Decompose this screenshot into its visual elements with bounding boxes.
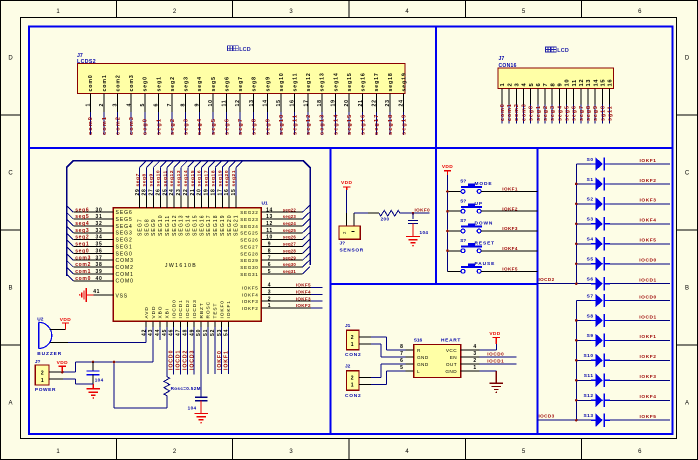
svg-text:SEG7: SEG7 [137, 218, 143, 236]
svg-text:SEG18: SEG18 [213, 214, 219, 236]
svg-text:10: 10 [565, 79, 571, 87]
svg-text:seg8: seg8 [252, 118, 258, 135]
svg-text:SEG21: SEG21 [234, 214, 240, 236]
svg-text:2: 2 [507, 83, 513, 87]
svg-text:J?: J? [35, 359, 41, 365]
svg-text:32: 32 [96, 221, 103, 227]
svg-text:SEG28: SEG28 [240, 251, 258, 256]
svg-text:IOCD0: IOCD0 [487, 352, 504, 357]
svg-text:13: 13 [266, 214, 273, 220]
svg-text:IOKF4: IOKF4 [296, 289, 311, 294]
svg-text:SEG5: SEG5 [116, 217, 133, 223]
svg-text:seg29: seg29 [283, 255, 297, 260]
svg-text:30: 30 [96, 207, 103, 213]
svg-text:IOCD0: IOCD0 [169, 350, 175, 370]
svg-text:1: 1 [351, 382, 354, 388]
svg-text:2: 2 [351, 335, 354, 341]
svg-text:seg4: seg4 [197, 76, 203, 91]
svg-text:seg16: seg16 [361, 114, 367, 135]
svg-text:SEG16: SEG16 [199, 214, 205, 236]
svg-text:sg11: sg11 [607, 105, 613, 121]
svg-text:SEG4: SEG4 [116, 224, 133, 230]
svg-text:24: 24 [399, 99, 405, 106]
svg-text:SEG1: SEG1 [116, 244, 133, 250]
svg-text:21: 21 [190, 189, 196, 196]
svg-text:C: C [685, 171, 690, 177]
svg-text:8: 8 [400, 344, 403, 350]
svg-text:IOCD0: IOCD0 [639, 258, 656, 264]
svg-text:J2: J2 [345, 364, 351, 370]
svg-text:com2: com2 [115, 116, 121, 135]
svg-text:38: 38 [96, 262, 103, 268]
svg-text:seg19: seg19 [401, 114, 407, 135]
svg-text:13: 13 [586, 79, 592, 87]
svg-text:3: 3 [113, 103, 119, 107]
svg-text:BUZZER: BUZZER [37, 351, 62, 357]
svg-text:XBO: XBO [158, 306, 164, 319]
svg-text:UP: UP [475, 201, 483, 207]
svg-text:7: 7 [543, 83, 549, 87]
svg-text:SENSOR: SENSOR [340, 248, 364, 254]
svg-text:5: 5 [400, 365, 403, 371]
svg-text:com3: com3 [129, 116, 135, 135]
svg-text:RESET: RESET [475, 241, 496, 247]
svg-text:15: 15 [600, 79, 606, 87]
svg-text:seg9: seg9 [265, 118, 271, 135]
svg-text:14: 14 [262, 99, 268, 106]
svg-text:com3: com3 [129, 74, 135, 91]
svg-text:7: 7 [268, 255, 271, 261]
svg-text:seg6: seg6 [572, 105, 578, 121]
svg-text:IOCD1: IOCD1 [487, 359, 504, 364]
svg-text:D: D [8, 56, 13, 62]
svg-text:IOCD2: IOCD2 [185, 299, 191, 318]
svg-text:VDD: VDD [489, 331, 500, 337]
svg-text:12: 12 [235, 99, 241, 106]
svg-text:seg4: seg4 [197, 118, 203, 135]
svg-text:IOKF1: IOKF1 [640, 334, 657, 340]
svg-text:J7: J7 [499, 56, 505, 62]
svg-text:SEG8: SEG8 [144, 218, 150, 236]
svg-text:3: 3 [473, 351, 476, 357]
svg-text:seg6: seg6 [224, 118, 230, 135]
svg-text:23: 23 [385, 99, 391, 106]
svg-text:37: 37 [96, 255, 103, 261]
svg-text:seg30: seg30 [283, 262, 297, 267]
svg-text:seg22: seg22 [283, 207, 297, 212]
svg-text:IOKF1: IOKF1 [224, 350, 230, 370]
svg-text:14: 14 [266, 207, 273, 213]
svg-text:16: 16 [290, 99, 296, 106]
svg-text:seg16: seg16 [361, 72, 367, 91]
svg-text:24: 24 [169, 189, 175, 196]
svg-text:8: 8 [268, 248, 271, 254]
svg-text:6: 6 [268, 262, 271, 268]
svg-text:seg7: seg7 [238, 118, 244, 135]
svg-text:35: 35 [96, 242, 103, 248]
svg-text:seg10: seg10 [155, 170, 161, 187]
svg-text:C: C [8, 171, 13, 177]
svg-text:seg2: seg2 [170, 118, 176, 135]
svg-text:seg5: seg5 [564, 105, 570, 121]
svg-text:6: 6 [536, 83, 542, 87]
svg-text:L: L [417, 369, 420, 374]
svg-text:seg2: seg2 [170, 76, 176, 91]
svg-text:seg27: seg27 [283, 242, 297, 247]
svg-text:104: 104 [420, 230, 429, 235]
svg-text:IOKF2: IOKF2 [296, 303, 311, 308]
svg-text:DOWN: DOWN [475, 221, 494, 227]
svg-text:XBI: XBI [164, 308, 170, 318]
svg-text:seg13: seg13 [320, 114, 326, 135]
svg-text:EN: EN [450, 355, 457, 360]
svg-text:9: 9 [557, 83, 563, 87]
svg-text:10: 10 [266, 235, 273, 241]
svg-text:seg23: seg23 [283, 214, 297, 219]
svg-text:15: 15 [276, 99, 282, 106]
svg-text:13: 13 [249, 99, 255, 106]
svg-text:SEG3: SEG3 [116, 231, 133, 237]
svg-text:seg17: seg17 [204, 170, 210, 187]
svg-text:4: 4 [473, 344, 476, 350]
svg-text:J?: J? [340, 240, 346, 246]
svg-text:12: 12 [266, 221, 273, 227]
svg-text:seg7: seg7 [579, 105, 585, 121]
svg-text:U1: U1 [262, 200, 268, 206]
svg-text:seg26: seg26 [283, 235, 297, 240]
svg-text:104: 104 [188, 406, 197, 411]
svg-text:S16: S16 [414, 337, 423, 343]
svg-text:23: 23 [176, 189, 182, 196]
svg-text:IOKF4: IOKF4 [502, 246, 518, 251]
svg-text:SEG13: SEG13 [179, 214, 185, 236]
svg-text:SEG10: SEG10 [158, 214, 164, 236]
svg-text:seg21: seg21 [231, 170, 237, 187]
svg-text:IOCD3: IOCD3 [189, 350, 195, 370]
svg-text:GND: GND [417, 362, 429, 367]
svg-text:S?: S? [460, 218, 466, 223]
svg-text:seg1: seg1 [536, 105, 542, 121]
svg-text:AVD: AVD [144, 306, 150, 318]
svg-text:9: 9 [268, 242, 271, 248]
svg-text:IOKF3: IOKF3 [640, 198, 657, 204]
svg-text:SEG29: SEG29 [240, 258, 258, 263]
svg-text:VCC: VCC [446, 348, 457, 353]
svg-text:com0: com0 [75, 276, 91, 282]
svg-text:R: R [417, 348, 421, 353]
svg-text:4: 4 [126, 103, 132, 107]
svg-text:IOKF1: IOKF1 [226, 300, 232, 318]
svg-text:11: 11 [222, 100, 228, 107]
svg-text:seg31: seg31 [283, 269, 297, 274]
svg-text:IOKF2: IOKF2 [502, 206, 518, 211]
svg-text:SEG15: SEG15 [192, 214, 198, 236]
svg-text:25: 25 [162, 189, 168, 196]
svg-text:com1: com1 [75, 269, 91, 275]
svg-text:seg15: seg15 [190, 170, 196, 187]
svg-text:COM0: COM0 [116, 279, 134, 285]
svg-text:31: 31 [96, 214, 103, 220]
svg-text:seg5: seg5 [211, 76, 217, 91]
svg-text:J1: J1 [345, 323, 351, 329]
svg-text:seg2: seg2 [75, 235, 89, 241]
svg-text:seg18: seg18 [388, 72, 394, 91]
svg-text:SEG11: SEG11 [165, 215, 171, 236]
svg-text:VDD: VDD [442, 164, 453, 170]
svg-text:12: 12 [579, 79, 585, 87]
svg-text:seg9: seg9 [149, 173, 155, 186]
svg-text:IOCD1: IOCD1 [176, 350, 182, 370]
svg-text:seg9: seg9 [593, 105, 599, 121]
svg-text:B: B [8, 286, 12, 292]
svg-text:S4: S4 [587, 237, 594, 243]
svg-text:S12: S12 [583, 393, 593, 399]
svg-text:GND: GND [417, 355, 429, 360]
svg-text:SEG19: SEG19 [220, 214, 226, 236]
svg-text:2: 2 [268, 296, 271, 302]
svg-text:seg3: seg3 [184, 118, 190, 135]
svg-text:seg0: seg0 [143, 118, 149, 135]
svg-text:seg12: seg12 [306, 114, 312, 135]
svg-text:4: 4 [522, 83, 528, 87]
svg-text:seg17: seg17 [374, 72, 380, 91]
svg-text:IOCD1: IOCD1 [639, 278, 656, 284]
svg-text:seg9: seg9 [265, 76, 271, 91]
svg-text:seg28: seg28 [283, 248, 297, 253]
svg-text:18: 18 [317, 99, 323, 106]
svg-text:SEG26: SEG26 [240, 238, 258, 243]
svg-text:SEG17: SEG17 [206, 214, 212, 236]
svg-text:seg25: seg25 [283, 228, 297, 233]
svg-text:VDD: VDD [57, 360, 68, 366]
svg-text:OUT: OUT [446, 362, 457, 367]
svg-text:S1: S1 [587, 177, 594, 183]
svg-text:com0: com0 [88, 116, 94, 135]
svg-text:18: 18 [210, 189, 216, 196]
svg-text:seg11: seg11 [293, 114, 299, 135]
svg-text:MODE: MODE [475, 181, 493, 187]
svg-text:com1: com1 [102, 74, 108, 91]
svg-text:4: 4 [268, 283, 271, 289]
svg-text:LCD: LCD [557, 48, 569, 54]
svg-text:IOCD1: IOCD1 [178, 299, 184, 318]
svg-text:IOKF1: IOKF1 [640, 158, 657, 164]
svg-text:seg6: seg6 [224, 76, 230, 91]
svg-text:B: B [685, 286, 689, 292]
svg-text:S3: S3 [587, 217, 594, 223]
svg-text:S8: S8 [587, 313, 594, 319]
svg-text:7: 7 [400, 351, 403, 357]
svg-text:seg3: seg3 [184, 76, 190, 91]
svg-text:IOKF3: IOKF3 [640, 374, 657, 380]
svg-text:seg10: seg10 [279, 114, 285, 135]
svg-text:COM3: COM3 [116, 258, 134, 264]
svg-text:A: A [685, 401, 689, 407]
svg-text:SEG27: SEG27 [240, 244, 258, 249]
svg-text:seg10: seg10 [279, 72, 285, 91]
svg-text:seg18: seg18 [210, 170, 216, 187]
svg-text:IOKF3: IOKF3 [296, 296, 311, 301]
svg-text:5: 5 [140, 103, 146, 107]
svg-text:CON2: CON2 [345, 393, 362, 399]
svg-text:19: 19 [331, 99, 337, 106]
svg-text:SEG31: SEG31 [240, 272, 258, 277]
svg-text:26: 26 [155, 189, 161, 196]
svg-text:Rosc=0.52M: Rosc=0.52M [171, 386, 201, 391]
svg-text:6: 6 [154, 103, 160, 107]
svg-text:SEG25: SEG25 [240, 231, 258, 236]
svg-text:1: 1 [500, 83, 506, 87]
svg-text:seg14: seg14 [183, 170, 189, 187]
svg-text:seg7: seg7 [135, 173, 141, 186]
svg-text:SEG23: SEG23 [240, 217, 258, 222]
svg-text:IOCD0: IOCD0 [171, 299, 177, 318]
svg-text:IOKF2: IOKF2 [640, 354, 657, 360]
svg-text:com2: com2 [115, 74, 121, 91]
svg-text:seg4: seg4 [557, 105, 563, 121]
svg-text:VDD: VDD [151, 306, 157, 319]
svg-text:seg0: seg0 [529, 105, 535, 121]
svg-text:1: 1 [85, 103, 91, 107]
svg-text:SEG2: SEG2 [116, 238, 133, 244]
svg-text:SEG30: SEG30 [240, 265, 258, 270]
svg-text:IOKF3: IOKF3 [502, 226, 518, 231]
svg-text:com1: com1 [102, 116, 108, 135]
svg-text:seg18: seg18 [388, 114, 394, 135]
svg-text:IOKF5: IOKF5 [296, 283, 311, 288]
svg-text:seg8: seg8 [586, 105, 592, 121]
svg-text:20: 20 [197, 189, 203, 196]
svg-text:com2: com2 [514, 103, 520, 121]
svg-text:8: 8 [181, 103, 187, 107]
svg-text:SEG9: SEG9 [151, 218, 157, 236]
svg-text:S11: S11 [584, 373, 594, 379]
svg-text:SEG12: SEG12 [172, 214, 178, 236]
svg-text:2: 2 [473, 358, 476, 364]
svg-text:com2: com2 [75, 262, 91, 268]
svg-text:16: 16 [224, 189, 230, 196]
svg-text:1: 1 [473, 365, 476, 371]
svg-text:17: 17 [303, 99, 309, 106]
svg-text:VSS: VSS [116, 294, 128, 300]
svg-text:seg19: seg19 [401, 72, 407, 91]
svg-text:CON2: CON2 [345, 352, 362, 358]
svg-text:seg5: seg5 [211, 118, 217, 135]
svg-text:2: 2 [41, 370, 44, 376]
svg-text:TEST: TEST [213, 303, 219, 319]
svg-text:S9: S9 [587, 333, 594, 339]
svg-text:S6: S6 [587, 277, 594, 283]
svg-text:COM2: COM2 [116, 265, 134, 271]
svg-text:SEG24: SEG24 [240, 224, 258, 229]
svg-text:29: 29 [135, 189, 141, 196]
svg-text:IOKF4: IOKF4 [640, 218, 657, 224]
svg-text:seg1: seg1 [156, 76, 162, 91]
svg-text:6: 6 [400, 358, 403, 364]
svg-text:10: 10 [208, 99, 214, 106]
svg-text:33: 33 [96, 228, 103, 234]
svg-text:seg1: seg1 [156, 118, 162, 135]
svg-text:seg15: seg15 [347, 114, 353, 135]
svg-text:seg8: seg8 [252, 76, 258, 91]
svg-text:28: 28 [142, 189, 148, 196]
svg-text:S5: S5 [587, 257, 594, 263]
svg-text:S?: S? [460, 198, 466, 203]
svg-text:5: 5 [268, 269, 271, 275]
svg-text:seg3: seg3 [550, 105, 556, 121]
svg-text:sg10: sg10 [600, 105, 606, 121]
svg-text:IOKF5: IOKF5 [502, 267, 518, 272]
svg-text:seg1: seg1 [75, 242, 89, 248]
svg-text:S?: S? [460, 238, 466, 243]
svg-text:IOCD2: IOCD2 [182, 350, 188, 370]
svg-text:27: 27 [149, 189, 155, 196]
svg-text:15: 15 [231, 189, 237, 196]
svg-text:34: 34 [96, 235, 103, 241]
svg-text:VDD: VDD [60, 317, 71, 323]
svg-text:200: 200 [381, 216, 390, 221]
svg-text:3: 3 [514, 83, 520, 87]
svg-text:A: A [8, 401, 12, 407]
svg-text:11: 11 [572, 79, 578, 87]
svg-text:16: 16 [608, 79, 614, 87]
svg-text:seg24: seg24 [283, 221, 297, 226]
svg-text:IOCD3: IOCD3 [192, 299, 198, 318]
svg-text:41: 41 [93, 289, 100, 295]
svg-text:SEG0: SEG0 [116, 251, 133, 257]
svg-text:GND: GND [445, 369, 457, 374]
svg-text:S0: S0 [587, 157, 594, 163]
svg-text:ROSC: ROSC [206, 301, 212, 318]
svg-text:22: 22 [371, 99, 377, 106]
svg-text:LCD: LCD [239, 47, 251, 53]
svg-text:seg14: seg14 [333, 72, 339, 91]
svg-text:17: 17 [217, 189, 223, 196]
svg-text:1: 1 [268, 303, 271, 309]
svg-text:5: 5 [529, 83, 535, 87]
svg-text:seg0: seg0 [75, 248, 89, 254]
svg-text:22: 22 [183, 189, 189, 196]
svg-text:IOKF3: IOKF3 [242, 299, 259, 304]
svg-text:seg12: seg12 [169, 170, 175, 187]
svg-text:21: 21 [358, 99, 364, 106]
svg-text:seg11: seg11 [162, 170, 168, 186]
svg-text:com3: com3 [75, 255, 91, 261]
svg-text:com3: com3 [521, 103, 527, 121]
svg-text:POWER: POWER [35, 387, 56, 393]
svg-text:IOKF2: IOKF2 [242, 306, 259, 311]
svg-text:2: 2 [99, 103, 105, 107]
svg-text:seg8: seg8 [142, 173, 148, 186]
svg-text:seg15: seg15 [347, 72, 353, 91]
svg-text:com1: com1 [507, 103, 513, 121]
svg-text:seg14: seg14 [333, 114, 339, 135]
svg-text:SEG6: SEG6 [116, 210, 133, 216]
svg-text:14: 14 [593, 79, 599, 87]
svg-text:RBZT: RBZT [199, 302, 205, 318]
svg-text:SEG22: SEG22 [240, 210, 258, 215]
svg-text:40: 40 [96, 276, 103, 282]
svg-text:seg19: seg19 [217, 170, 223, 187]
svg-text:IOCD1: IOCD1 [639, 314, 656, 320]
svg-text:seg13: seg13 [320, 72, 326, 91]
svg-text:IOKF1: IOKF1 [502, 187, 518, 192]
svg-text:3: 3 [268, 289, 271, 295]
svg-text:S2: S2 [587, 197, 594, 203]
svg-text:seg4: seg4 [75, 221, 89, 227]
svg-text:39: 39 [96, 269, 103, 275]
svg-text:1: 1 [41, 378, 44, 384]
